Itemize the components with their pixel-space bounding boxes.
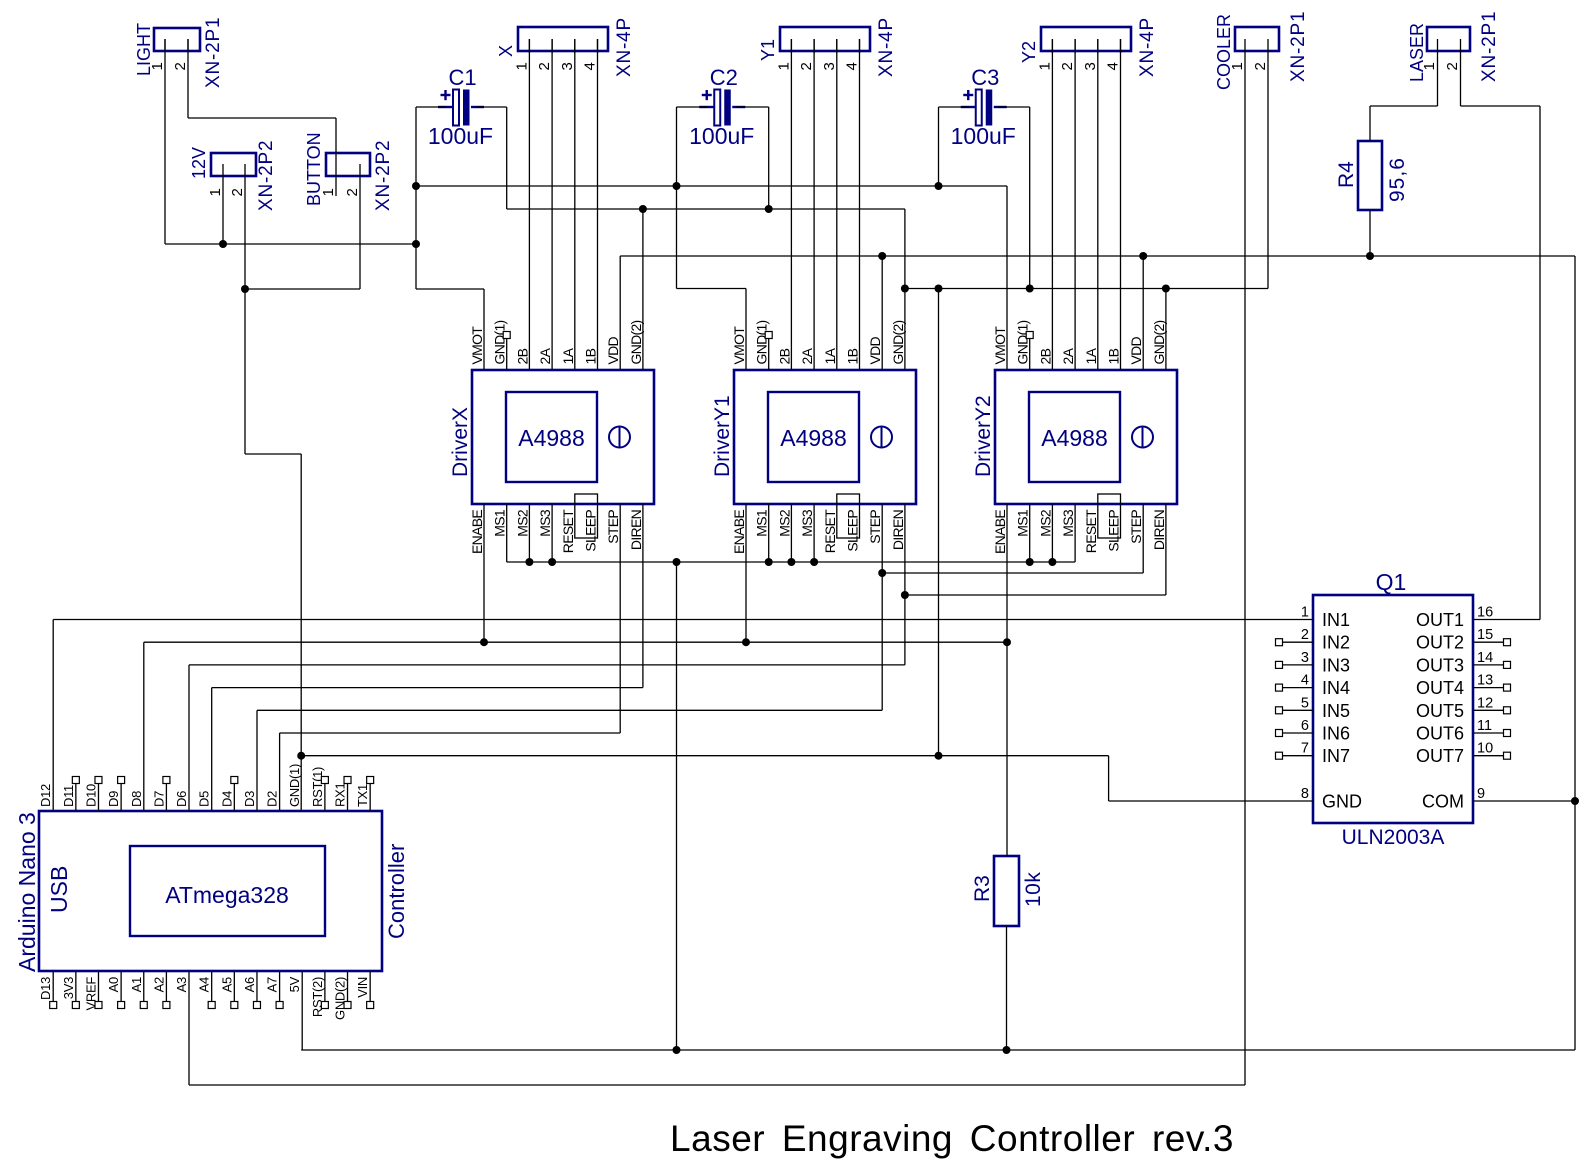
svg-text:D7: D7 [151,791,166,807]
wire X connector pins down to DriverX [528,39,530,370]
svg-text:C1: C1 [448,65,476,90]
wire D6 to DIREN DriverY1 [189,664,905,666]
svg-text:RX1: RX1 [333,783,348,807]
NC pad A6 of Arduino [256,971,258,1002]
svg-text:A7: A7 [265,977,280,992]
svg-text:2B: 2B [514,348,530,364]
svg-text:4: 4 [1105,62,1122,70]
wire VMOT DriverY2 [1006,186,1008,370]
wire C1 right [475,106,507,108]
svg-text:OUT7: OUT7 [1416,746,1464,766]
NC pad GND(1) of DriverX [506,338,508,370]
svg-text:100uF: 100uF [428,123,493,149]
svg-text:D11: D11 [61,785,76,807]
svg-text:STEP: STEP [867,510,883,544]
NC pad D10 of Arduino [97,783,99,811]
NC pad A7 of Arduino [279,971,281,1002]
svg-text:XN-4P: XN-4P [1137,17,1158,77]
svg-text:A2: A2 [151,977,166,992]
wire C2 left [677,106,708,108]
connector BUTTON XN-2P2 [326,153,370,176]
pin 3 of Y1 [836,39,838,53]
wire VDD rail y=256 [620,255,1575,257]
svg-text:SLEEP: SLEEP [1106,510,1122,552]
svg-text:MS3: MS3 [799,509,815,537]
NC pad OUT4 of Q1 [1473,687,1503,689]
svg-text:D12: D12 [38,784,53,807]
svg-text:XN-4P: XN-4P [614,17,635,77]
svg-text:IN2: IN2 [1322,633,1350,653]
wire GND jog to Arduino GND(1) [245,453,301,455]
svg-text:R4: R4 [1335,161,1358,188]
pin 4 of X [597,39,599,53]
connector LASER XN-2P1 [1427,27,1470,51]
svg-text:OUT5: OUT5 [1416,701,1464,721]
NC pad D11 of Arduino [75,783,77,811]
svg-text:1B: 1B [1106,348,1122,364]
resistor R4 95,6 [1358,141,1382,210]
svg-text:IN3: IN3 [1322,655,1350,675]
svg-text:DriverY1: DriverY1 [711,395,734,477]
svg-text:GND(1): GND(1) [1015,320,1031,364]
NC pad OUT5 of Q1 [1473,709,1503,711]
NC pad GND(1) of DriverY1 [768,338,770,370]
svg-text:DriverY2: DriverY2 [972,395,995,477]
wire MS pins DriverY2 [1029,504,1031,562]
wire VMOT DriverX feed [416,288,484,290]
driver DriverY2 A4988 [995,370,1177,504]
wire C1- down [506,107,508,209]
wire ENABE pins [483,504,485,642]
svg-text:3: 3 [1082,62,1099,70]
wire C2 right [736,106,769,108]
pin 3 of X [574,39,576,53]
svg-text:D2: D2 [265,791,280,807]
svg-text:1A: 1A [1083,347,1099,364]
node DIREN-Y line y=595 [905,594,1166,596]
wire COOLER.1 down [1244,39,1246,1085]
svg-text:1: 1 [207,188,224,196]
NC pad IN5 of Q1 [1283,709,1313,711]
NC pad OUT6 of Q1 [1473,732,1503,734]
wire A3 down [188,971,190,1085]
wire R4 bottom [1369,210,1371,256]
svg-text:2: 2 [229,188,246,196]
node MS line y=562 [507,561,1075,563]
NC pad IN3 of Q1 [1283,664,1313,666]
pin 4 of Y1 [859,39,861,53]
svg-text:10k: 10k [1022,872,1045,907]
svg-text:IN4: IN4 [1322,678,1350,698]
svg-text:Controller: Controller [384,844,409,939]
svg-text:Y1: Y1 [758,39,778,61]
svg-text:ULN2003A: ULN2003A [1342,826,1445,849]
svg-text:3: 3 [559,62,576,70]
pin 3 of Y2 [1097,39,1099,53]
svg-text:R3: R3 [971,875,994,902]
connector 12V XN-2P2 [211,153,256,176]
connector COOLER XN-2P1 [1235,27,1279,51]
svg-text:OUT1: OUT1 [1416,610,1464,630]
wire D2 to STEP DriverX [280,732,621,734]
svg-text:GND(1): GND(1) [287,764,302,807]
node 5V rail y=1050 [301,1049,1575,1051]
wire Y1 connector pins down to DriverY1 [790,39,792,370]
wire GND(2) DriverX [642,209,644,370]
wire LIGHT.2 to BUTTON.1 [187,39,189,118]
svg-text:XN-2P1: XN-2P1 [1288,11,1309,82]
svg-text:MS1: MS1 [754,509,770,537]
wire D5 to DIREN DriverX [212,687,643,689]
svg-text:2A: 2A [537,347,553,364]
wire C1+ vertical x=416 [415,107,417,289]
svg-text:2: 2 [1444,62,1461,70]
svg-text:D3: D3 [242,791,257,807]
NC pad VREF of Arduino [97,971,99,1002]
NC pad GND(2) of Arduino [347,971,349,1002]
svg-text:10: 10 [1477,741,1493,757]
svg-text:STEP: STEP [1128,510,1144,544]
wire VMOT DriverY1 feed [677,288,747,290]
svg-text:14: 14 [1477,650,1493,666]
wire MS pins DriverX [506,504,508,562]
pin 2 of Y1 [813,39,815,53]
svg-text:OUT6: OUT6 [1416,724,1464,744]
svg-text:GND(2): GND(2) [1151,320,1167,364]
svg-text:VDD: VDD [605,336,621,364]
svg-text:2: 2 [798,62,815,70]
reset-sleep tie of DriverY1 [837,494,860,538]
svg-text:1: 1 [1036,62,1053,70]
svg-text:XN-2P1: XN-2P1 [203,17,224,88]
wire C2+ vertical x=676.5 [676,107,678,289]
svg-text:XN-2P1: XN-2P1 [1479,11,1500,82]
svg-text:3: 3 [1301,650,1309,666]
svg-text:C2: C2 [710,65,738,90]
svg-text:TX1: TX1 [355,784,370,807]
pin 1 of Y2 [1051,39,1053,53]
wire GND to BUTTON.2 [245,288,360,290]
svg-text:4: 4 [844,62,861,70]
svg-text:MS2: MS2 [1037,509,1053,537]
NC pad RST(2) of Arduino [324,971,326,1002]
svg-text:1: 1 [149,62,166,70]
svg-text:A4988: A4988 [518,425,585,451]
wire COM of Q1 [1473,800,1575,802]
svg-text:OUT2: OUT2 [1416,633,1464,653]
svg-text:IN1: IN1 [1322,610,1350,630]
svg-text:1: 1 [513,62,530,70]
svg-text:GND(1): GND(1) [754,320,770,364]
NC pad D4 of Arduino [233,783,235,811]
svg-text:D10: D10 [83,784,98,807]
wire GND link x=938.5 [938,289,940,756]
svg-text:COM: COM [1422,792,1464,812]
wire GND jog x=904.9 [904,209,906,370]
controller Arduino Nano 3 [39,811,382,971]
svg-text:VMOT: VMOT [731,326,747,365]
svg-text:1B: 1B [583,348,599,364]
NC pad OUT7 of Q1 [1473,755,1503,757]
wire VDD rail right corner down to COM [1574,256,1576,1050]
svg-text:2A: 2A [1060,347,1076,364]
svg-text:LASER: LASER [1407,23,1427,82]
svg-text:DIREN: DIREN [1151,510,1167,550]
wire GND(2) DriverY2 [1165,289,1167,371]
wire VDD DriverY2 [1142,256,1144,370]
wire LASER.1 to R4 [1437,39,1439,106]
resistor R3 10k [994,856,1019,926]
svg-text:11: 11 [1477,718,1492,734]
IC Q1 ULN2003A [1313,595,1473,823]
svg-text:Y2: Y2 [1019,41,1039,63]
NC pad 3V3 of Arduino [75,971,77,1002]
NC pad A1 of Arduino [143,971,145,1002]
NC pad A2 of Arduino [165,971,167,1002]
node STEP-Y line y=573 [882,572,1143,574]
svg-text:D13: D13 [38,977,53,1000]
wire ENABE DriverY2 / R3 [1006,504,1008,856]
pin 4 of Y2 [1120,39,1122,53]
wire R3 bottom [1006,926,1008,1050]
svg-text:DriverX: DriverX [449,407,472,477]
svg-text:2: 2 [536,62,553,70]
NC pad VIN of Arduino [369,971,371,1002]
reset-sleep tie of DriverX [575,494,598,538]
NC pad IN2 of Q1 [1283,641,1313,643]
wire VDD DriverX [619,256,621,370]
wire C1 left [416,106,446,108]
svg-text:RESET: RESET [822,509,838,553]
svg-text:D4: D4 [219,791,234,807]
svg-text:A4988: A4988 [1041,425,1108,451]
svg-text:RST(2): RST(2) [310,977,325,1017]
driver DriverX A4988 [472,370,654,504]
wire MS pins DriverY1 [768,504,770,562]
wire 12V.2 down to GND [244,164,246,454]
node 12V rail y=244 [165,243,416,245]
svg-text:4: 4 [582,62,599,70]
connector Y2 XN-4P [1041,27,1131,51]
wire MS line down x=676.5 [676,562,678,1050]
svg-text:D6: D6 [174,791,189,807]
svg-text:A1: A1 [129,977,144,992]
NC pad A4 of Arduino [211,971,213,1002]
svg-text:RESET: RESET [1083,509,1099,553]
svg-text:8: 8 [1301,786,1309,802]
svg-text:XN-2P2: XN-2P2 [256,140,277,211]
svg-text:OUT3: OUT3 [1416,655,1464,675]
node GND line y=209 [507,208,905,210]
svg-text:1: 1 [1421,62,1438,70]
svg-text:1: 1 [775,62,792,70]
NC pad D9 of Arduino [120,783,122,811]
NC pad OUT2 of Q1 [1473,641,1503,643]
svg-text:COOLER: COOLER [1214,14,1234,90]
NC pad A0 of Arduino [120,971,122,1002]
node A3 rail y=1085 [189,1084,1245,1086]
svg-text:6: 6 [1301,718,1309,734]
svg-text:A4988: A4988 [780,425,847,451]
svg-text:100uF: 100uF [689,123,754,149]
svg-text:ENABE: ENABE [731,510,747,554]
NC pad D7 of Arduino [165,783,167,811]
svg-text:MS3: MS3 [537,509,553,537]
wire C3 left [939,106,970,108]
svg-text:GND: GND [1322,792,1362,812]
svg-text:SLEEP: SLEEP [845,510,861,552]
svg-text:RESET: RESET [560,509,576,553]
wire VDD DriverY1 [881,256,883,370]
svg-text:13: 13 [1477,673,1493,689]
pin 1 of Y1 [790,39,792,53]
node GND line y=755.7 [301,755,1108,757]
svg-text:MS2: MS2 [514,509,530,537]
NC pad GND(1) of DriverY2 [1029,338,1031,370]
wire COOLER.2 down to GND rail [1267,39,1269,289]
svg-text:MS1: MS1 [1015,509,1031,537]
svg-text:1A: 1A [560,347,576,364]
NC pad IN7 of Q1 [1283,755,1313,757]
svg-text:GND(1): GND(1) [492,320,508,364]
svg-text:2: 2 [1301,627,1309,643]
svg-text:1A: 1A [822,347,838,364]
svg-text:DIREN: DIREN [890,510,906,550]
svg-text:C3: C3 [971,65,999,90]
pin 1 of LIGHT [164,39,166,52]
svg-text:MS1: MS1 [492,509,508,537]
svg-text:VMOT: VMOT [469,326,485,365]
wire C2- down [768,107,770,209]
svg-text:MS3: MS3 [1060,509,1076,537]
svg-text:Q1: Q1 [1376,569,1407,595]
svg-text:VIN: VIN [355,977,370,998]
wire DIREN DriverY2 [1165,504,1167,595]
svg-text:5: 5 [1301,695,1309,711]
svg-text:Laser Engraving Controller rev: Laser Engraving Controller rev.3 [670,1118,1234,1159]
svg-text:XN-4P: XN-4P [876,17,897,77]
svg-text:ENABE: ENABE [992,510,1008,554]
wire LASER.2 to OUT1 [1460,39,1462,106]
svg-text:D8: D8 [129,791,144,807]
wire C3 right [998,106,1030,108]
wire LIGHT.1 down [164,39,166,244]
svg-text:2B: 2B [1037,348,1053,364]
svg-text:OUT4: OUT4 [1416,678,1464,698]
wire D12 to IN1 [53,619,1313,621]
NC pad RX1 of Arduino [347,783,349,811]
svg-text:GND(2): GND(2) [628,320,644,364]
svg-text:USB: USB [46,866,72,913]
node 12V rail y=186 [416,185,1007,187]
svg-text:7: 7 [1301,741,1309,757]
svg-text:Arduino Nano 3: Arduino Nano 3 [14,812,40,972]
svg-text:3V3: 3V3 [61,977,76,999]
wire Y2 connector pins down to DriverY2 [1051,39,1053,370]
svg-text:XN-2P2: XN-2P2 [373,140,394,211]
svg-text:2A: 2A [799,347,815,364]
wire D3 to STEP DriverY1 [257,709,882,711]
pin 2 of LIGHT [187,39,189,52]
NC pad IN4 of Q1 [1283,687,1313,689]
NC pad IN6 of Q1 [1283,732,1313,734]
svg-text:VDD: VDD [1128,336,1144,364]
svg-text:VDD: VDD [867,336,883,364]
svg-text:ATmega328: ATmega328 [165,882,289,908]
svg-text:X: X [496,45,516,57]
svg-text:1B: 1B [845,348,861,364]
NC pad A5 of Arduino [233,971,235,1002]
node ENABLE line y=642.2 [144,641,1007,643]
svg-text:100uF: 100uF [951,123,1016,149]
wire C3- down [1029,107,1031,289]
svg-text:MS2: MS2 [776,509,792,537]
pin 2 of Y2 [1074,39,1076,53]
svg-text:VMOT: VMOT [992,326,1008,365]
connector LIGHT XN-2P1 [154,28,200,51]
svg-text:GND(2): GND(2) [333,977,348,1020]
svg-text:IN7: IN7 [1322,746,1350,766]
NC pad OUT3 of Q1 [1473,664,1503,666]
svg-text:A5: A5 [219,977,234,992]
svg-text:1: 1 [1301,605,1309,621]
svg-text:RST(1): RST(1) [310,767,325,807]
svg-text:D5: D5 [197,791,212,807]
svg-text:12V: 12V [189,147,209,179]
svg-text:16: 16 [1477,605,1493,621]
NC pad D13 of Arduino [52,971,54,1002]
svg-text:A6: A6 [242,977,257,992]
svg-text:4: 4 [1301,673,1309,689]
svg-text:A0: A0 [106,977,121,992]
svg-text:1: 1 [320,188,337,196]
wire OUT1 of Q1 [1473,619,1540,621]
node GND rail y=288.5 [905,288,1268,290]
NC pad TX1 of Arduino [369,783,371,811]
wire GND jog to Q1 GND [1108,756,1110,801]
svg-text:15: 15 [1477,627,1493,643]
svg-text:D9: D9 [106,791,121,807]
wire 5V pin down [301,971,303,1050]
svg-text:SLEEP: SLEEP [583,510,599,552]
svg-text:2: 2 [172,62,189,70]
connector Y1 XN-4P [780,27,870,51]
svg-text:A4: A4 [197,977,212,992]
svg-text:3: 3 [821,62,838,70]
svg-text:ENABE: ENABE [469,510,485,554]
svg-text:12: 12 [1477,695,1493,711]
svg-text:1: 1 [1229,62,1246,70]
svg-text:A3: A3 [174,977,189,992]
svg-text:GND(2): GND(2) [890,320,906,364]
wire STEP DriverY2 [1142,504,1144,573]
pin 2 of X [551,39,553,53]
svg-text:2B: 2B [776,348,792,364]
svg-text:2: 2 [1059,62,1076,70]
svg-text:STEP: STEP [605,510,621,544]
wire 12V.1 down [222,164,224,244]
svg-text:IN6: IN6 [1322,724,1350,744]
NC pad RST(1) of Arduino [324,783,326,811]
svg-text:5V: 5V [287,976,302,992]
connector X XN-4P [518,27,608,51]
svg-text:2: 2 [1252,62,1269,70]
pin 1 of X [528,39,530,53]
svg-text:95,6: 95,6 [1386,157,1409,202]
reset-sleep tie of DriverY2 [1098,494,1121,538]
driver DriverY1 A4988 [734,370,916,504]
wire C3+ vertical [938,107,940,186]
